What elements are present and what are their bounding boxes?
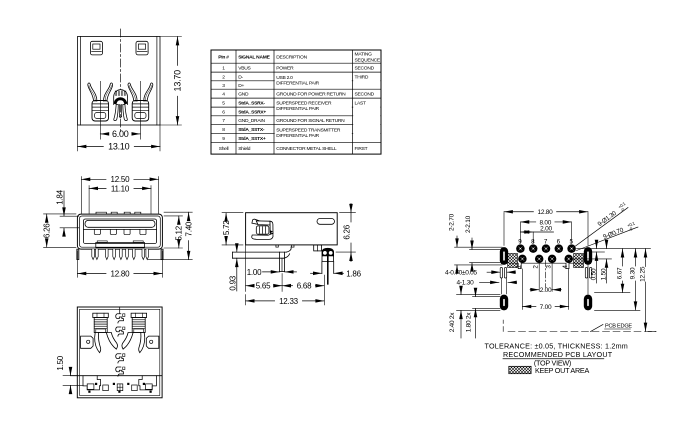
svg-text:DESCRIPTION: DESCRIPTION bbox=[276, 55, 307, 61]
svg-text:1.50: 1.50 bbox=[56, 355, 65, 370]
svg-text:12.50: 12.50 bbox=[111, 175, 131, 184]
dimension 2-2.70 bbox=[448, 213, 457, 270]
svg-text:SUPERSPEED RECEIVER: SUPERSPEED RECEIVER bbox=[276, 101, 332, 107]
top view left spring contact bbox=[88, 83, 113, 121]
pad numbers top row bbox=[518, 238, 573, 245]
dimension 1.80 2x bbox=[465, 291, 475, 338]
svg-text:LAST: LAST bbox=[355, 100, 366, 106]
svg-text:2-2.10: 2-2.10 bbox=[465, 215, 472, 233]
pad 5 bbox=[567, 244, 576, 253]
pad 6 bbox=[555, 244, 564, 253]
svg-text:MATING: MATING bbox=[355, 52, 373, 58]
dimension 6.67 bbox=[616, 249, 623, 293]
svg-text:4-1.30: 4-1.30 bbox=[457, 280, 475, 287]
side view top slot bbox=[317, 219, 335, 225]
svg-text:SEQUENCE: SEQUENCE bbox=[355, 58, 381, 64]
dimension 2-2.10 bbox=[465, 215, 472, 268]
dimension 6.26 side bbox=[336, 204, 356, 262]
dimension 13.10 bbox=[78, 125, 161, 152]
dimension 0.50 bbox=[590, 243, 597, 283]
dimension 8.00 pcb bbox=[520, 219, 571, 243]
dimension 12.80 pcb bbox=[504, 209, 588, 245]
svg-text:12.80: 12.80 bbox=[537, 209, 553, 216]
bottom view body bbox=[77, 307, 162, 398]
pad 2 bbox=[535, 255, 544, 264]
shell slot holes right bbox=[585, 268, 592, 279]
dimension 1.50 bbox=[56, 355, 83, 392]
svg-text:KEEP OUT AREA: KEEP OUT AREA bbox=[535, 366, 589, 375]
table header bbox=[218, 52, 381, 64]
svg-text:StdA_SSRX-: StdA_SSRX- bbox=[238, 100, 265, 106]
svg-text:SECOND: SECOND bbox=[355, 65, 375, 71]
side view body bbox=[246, 213, 338, 245]
svg-text:9.30: 9.30 bbox=[629, 267, 636, 279]
svg-text:Pin #: Pin # bbox=[218, 55, 229, 61]
svg-text:GND: GND bbox=[238, 91, 249, 97]
mounting hole top right bbox=[584, 247, 592, 265]
svg-text:StdA_SSTX-: StdA_SSTX- bbox=[238, 127, 265, 133]
svg-text:1.86: 1.86 bbox=[346, 269, 361, 278]
front view pins bbox=[92, 249, 149, 259]
front view bottom platform bbox=[96, 241, 145, 248]
side view bottom nubs bbox=[276, 245, 294, 247]
pin table frame bbox=[211, 50, 381, 154]
svg-text:POWER: POWER bbox=[276, 65, 294, 71]
dimension 2.40 2x bbox=[449, 289, 461, 338]
svg-text:6.26: 6.26 bbox=[42, 223, 51, 238]
bottom view right claw contact bbox=[122, 313, 159, 353]
bottom pad extension lines bbox=[522, 264, 568, 310]
pad 7 bbox=[542, 244, 551, 253]
shell slot holes left bbox=[500, 268, 506, 279]
drill note 1.30 bbox=[576, 201, 630, 246]
svg-text:6.00: 6.00 bbox=[112, 129, 129, 139]
svg-text:6.67: 6.67 bbox=[616, 267, 623, 279]
note 4-0.70 bbox=[445, 269, 516, 276]
dimension 1.86 bbox=[311, 269, 362, 278]
svg-text:D+: D+ bbox=[238, 83, 244, 89]
dimension 0.93 bbox=[229, 246, 238, 291]
top view centerline bbox=[119, 29, 121, 134]
footprint outline bbox=[509, 263, 583, 268]
svg-text:SUPERSPEED TRANSMITTER: SUPERSPEED TRANSMITTER bbox=[276, 128, 341, 134]
top view right spring contact bbox=[128, 83, 153, 121]
pcb edge label bbox=[591, 324, 633, 332]
dimension 12.80 front bbox=[77, 251, 162, 278]
svg-text:6.26: 6.26 bbox=[342, 224, 351, 239]
svg-text:13.70: 13.70 bbox=[173, 70, 183, 92]
svg-text:PCB EDGE: PCB EDGE bbox=[605, 324, 632, 330]
svg-text:Shield: Shield bbox=[238, 146, 251, 152]
dimension 12.25 bbox=[639, 249, 646, 332]
pad 9 bbox=[516, 244, 525, 253]
dimension 6.26 front bbox=[42, 214, 76, 247]
pcb centerline bbox=[545, 261, 547, 288]
dimension 1.00 bbox=[247, 268, 297, 277]
svg-text:6.68: 6.68 bbox=[297, 282, 312, 291]
table rows bbox=[219, 65, 375, 152]
svg-text:2.00: 2.00 bbox=[540, 287, 552, 294]
svg-text:13.10: 13.10 bbox=[108, 142, 130, 152]
dimension 1.84 bbox=[55, 189, 79, 234]
mounting hole top left bbox=[500, 247, 508, 265]
svg-text:CONNECTOR METAL SHELL: CONNECTOR METAL SHELL bbox=[276, 146, 337, 152]
svg-text:THIRD: THIRD bbox=[355, 74, 369, 80]
svg-text:0.50: 0.50 bbox=[590, 268, 597, 280]
bottom view center comb clips bbox=[116, 314, 125, 376]
dimension 6.68 bbox=[282, 285, 292, 287]
left side extension lines pcb bbox=[455, 247, 503, 310]
vertical link lines left ovals bbox=[502, 265, 588, 294]
svg-text:12.33: 12.33 bbox=[279, 297, 299, 306]
front view side legs bbox=[77, 249, 163, 260]
top view mounting peg right bbox=[136, 41, 148, 55]
svg-text:2.00: 2.00 bbox=[540, 225, 552, 232]
dimension 13.70 bbox=[160, 37, 183, 126]
svg-text:GROUND FOR POWER RETURN: GROUND FOR POWER RETURN bbox=[276, 91, 346, 97]
dimension 11.10 bbox=[89, 184, 151, 213]
dimension 5.72 bbox=[222, 213, 243, 245]
keep out hatch right bbox=[574, 254, 584, 268]
svg-text:StdA_SSTX+: StdA_SSTX+ bbox=[238, 136, 266, 142]
top view center contact bbox=[114, 90, 128, 121]
side view extension lines bbox=[246, 245, 325, 305]
svg-text:FIRST: FIRST bbox=[355, 146, 368, 152]
top view shell body bbox=[78, 37, 161, 126]
dimension 12.50 bbox=[81, 175, 158, 213]
side view through-hole leg bbox=[322, 248, 334, 284]
bottom view solder pad section bbox=[71, 376, 163, 393]
keep out hatch left bbox=[508, 254, 518, 268]
svg-text:12.80: 12.80 bbox=[111, 269, 131, 278]
dimension 7.00 bbox=[522, 306, 536, 308]
keep out area legend bbox=[509, 366, 590, 375]
svg-text:DIFFERENTIAL PAIR: DIFFERENTIAL PAIR bbox=[276, 106, 319, 112]
svg-text:USB 2.0: USB 2.0 bbox=[276, 75, 293, 81]
svg-text:7.40: 7.40 bbox=[184, 221, 193, 236]
pad 4 bbox=[564, 255, 573, 264]
dimension 12.33 bbox=[246, 300, 275, 302]
dimension 7.40 bbox=[148, 212, 193, 260]
front view top latch bumps bbox=[96, 212, 141, 214]
svg-text:D-: D- bbox=[238, 74, 243, 80]
pad 8 bbox=[529, 244, 538, 253]
mounting hole bottom right bbox=[584, 295, 592, 311]
svg-text:DIFFERENTIAL PAIR: DIFFERENTIAL PAIR bbox=[276, 133, 319, 139]
note 4-1.30 bbox=[457, 280, 517, 287]
svg-text:GND_DRAIN: GND_DRAIN bbox=[238, 118, 265, 124]
svg-text:5.72: 5.72 bbox=[222, 220, 231, 235]
svg-text:1.80 2x: 1.80 2x bbox=[465, 312, 472, 333]
side view center pin bbox=[280, 252, 285, 271]
svg-text:5.12: 5.12 bbox=[174, 225, 183, 240]
dimension 1.50 pcb bbox=[600, 243, 607, 283]
svg-text:2-2.70: 2-2.70 bbox=[448, 213, 455, 231]
bottom view centerline stub bbox=[119, 307, 121, 314]
svg-text:5.65: 5.65 bbox=[256, 282, 271, 291]
side view spring contact bbox=[252, 219, 273, 239]
dimension 2.00 top pcb bbox=[520, 225, 553, 243]
dimension 5.12 bbox=[164, 216, 183, 248]
svg-text:11.10: 11.10 bbox=[111, 184, 130, 193]
pad 1 bbox=[518, 255, 527, 264]
side view right leg box bbox=[314, 245, 322, 251]
front view tongue contacts bbox=[83, 229, 156, 234]
svg-text:1.50: 1.50 bbox=[600, 268, 607, 280]
svg-text:VBUS: VBUS bbox=[238, 65, 251, 71]
svg-text:12.25: 12.25 bbox=[639, 266, 646, 282]
front view shell bbox=[77, 214, 162, 249]
svg-text:StdA_SSRX+: StdA_SSRX+ bbox=[238, 109, 266, 115]
svg-text:1.84: 1.84 bbox=[55, 189, 64, 204]
svg-text:SIGNAL NAME: SIGNAL NAME bbox=[238, 55, 270, 61]
top view mounting peg left bbox=[90, 41, 102, 55]
dimension 5.65 bbox=[246, 285, 252, 287]
right side extension lines bbox=[503, 249, 656, 332]
bottom view left claw contact bbox=[81, 313, 118, 353]
svg-text:Shell: Shell bbox=[219, 146, 229, 152]
svg-text:SECOND: SECOND bbox=[355, 91, 375, 97]
svg-text:0.93: 0.93 bbox=[229, 275, 238, 290]
drill note 0.70 bbox=[577, 220, 639, 250]
pad numbers bottom row bbox=[516, 265, 569, 269]
mounting hole bottom left bbox=[500, 295, 508, 311]
svg-text:1.00: 1.00 bbox=[247, 268, 262, 277]
dimension 2.00 bottom pcb bbox=[530, 287, 561, 294]
svg-text:GROUND FOR SIGNAL RETURN: GROUND FOR SIGNAL RETURN bbox=[276, 118, 345, 124]
recommended pcb layout title bbox=[503, 350, 613, 359]
svg-text:7.00: 7.00 bbox=[540, 304, 552, 311]
table merged cells bbox=[275, 80, 381, 135]
svg-text:DIFFERENTIAL PAIR: DIFFERENTIAL PAIR bbox=[276, 81, 319, 87]
front view opening bbox=[83, 219, 156, 244]
dimension 6.00 bbox=[100, 81, 140, 139]
svg-text:4-0.70±0.05: 4-0.70±0.05 bbox=[445, 269, 478, 276]
pad 3 bbox=[548, 255, 557, 264]
dimension 9.30 bbox=[629, 249, 636, 311]
svg-text:2.40 2x: 2.40 2x bbox=[449, 312, 456, 333]
side view front flange bbox=[233, 247, 292, 258]
